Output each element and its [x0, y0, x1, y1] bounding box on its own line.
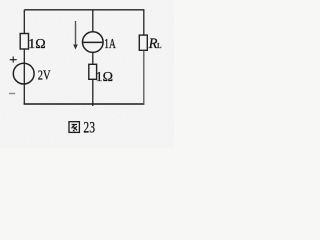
wire middle lower: [92, 79, 94, 106]
label plus polarity: [10, 57, 17, 63]
wire top: [24, 9, 144, 11]
svg-text:1Ω: 1Ω: [96, 70, 113, 85]
svg-text:1A: 1A: [104, 36, 116, 51]
wire left upper: [23, 10, 25, 34]
label minus polarity: [9, 93, 15, 95]
paper noise: [0, 0, 174, 148]
current source Is 1A: [83, 32, 104, 53]
resistor R1 1ohm left: [20, 34, 28, 50]
wire bottom: [24, 103, 145, 105]
resistor R2 1ohm middle: [89, 64, 97, 79]
svg-text:1Ω: 1Ω: [28, 37, 45, 52]
svg-text:23: 23: [83, 120, 95, 137]
voltage source Us 2V: [13, 63, 34, 84]
wire right upper: [143, 10, 145, 35]
wire middle upper: [92, 10, 94, 32]
wire right lower: [143, 50, 145, 104]
wire middle mid: [92, 52, 94, 64]
resistor RL: [139, 35, 147, 50]
caption glyph tu (figure): [69, 122, 79, 133]
svg-text:2V: 2V: [38, 69, 51, 84]
current direction arrow: [73, 21, 78, 50]
wire left lower: [23, 49, 25, 104]
